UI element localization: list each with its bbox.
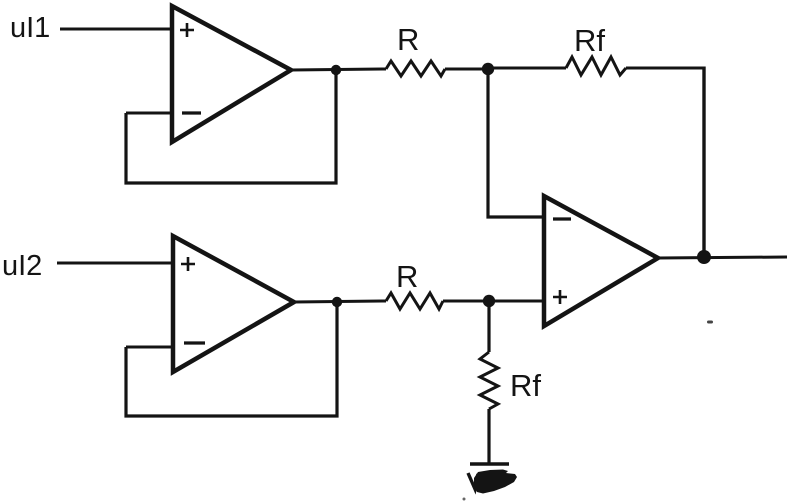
wire uI1 input to U1 + [60,28,173,31]
op-amp U2 [173,236,294,372]
wire U1 output [291,69,386,70]
svg-text:uI1: uI1 [10,12,50,44]
wire uI2 input to U2 + [57,262,174,265]
wire node A to Rf (top) [488,67,566,70]
node U2 output junction [332,297,342,307]
wire feedback vertical to U3 output node [702,67,705,259]
wire Rf to ground [487,409,490,464]
svg-text:Rf: Rf [510,368,541,403]
wire U2 inverting input lead [126,346,173,349]
wire U2 feedback loop [126,305,337,416]
wire U1 feedback loop [126,73,336,183]
wire node A to U3 inverting input [488,69,546,217]
node A junction [482,63,494,75]
wire R to summing node A [445,68,488,71]
node U1 output junction [331,65,341,75]
svg-text:Rf: Rf [574,23,605,58]
node U3 output junction [697,250,711,264]
wire R to node B [443,300,489,303]
speck artifact right [707,321,713,324]
op-amp U3 [544,196,658,326]
wire U2 output [294,301,386,302]
wire U1 inverting input lead [126,112,172,115]
svg-text:R: R [397,22,419,57]
resistor Rf (bottom, vertical) [480,352,498,409]
node B junction [483,295,495,307]
ground [468,464,517,494]
wire node B to U3 non-inverting input [489,300,546,303]
wire U3 output [658,257,787,258]
svg-text:R: R [396,259,418,294]
resistor R (top) [386,61,445,76]
op-amp U1 [172,6,291,142]
wire Rf to feedback corner [626,67,706,70]
svg-text:uI2: uI2 [2,250,42,282]
speck artifact below ground [463,498,466,501]
resistor R (bottom) [386,293,443,309]
resistor Rf (top) [566,57,626,75]
wire node B down to Rf [487,301,490,352]
